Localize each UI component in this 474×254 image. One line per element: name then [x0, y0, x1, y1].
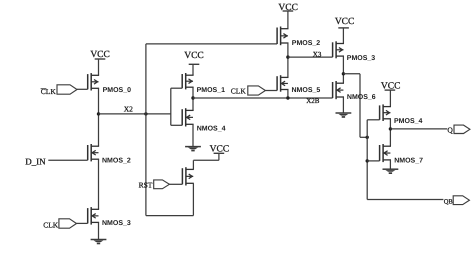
svg-text:NMOS_7: NMOS_7 — [394, 158, 423, 165]
node X2B junction at NMOS_5 — [286, 96, 289, 99]
input port CLK middle — [248, 86, 266, 95]
wire net Q to output port — [390, 128, 447, 130]
transistor PMOS_3 — [333, 41, 344, 58]
ground below NMOS_7 — [383, 169, 399, 174]
transistor NMOS_6 — [333, 81, 344, 99]
wire gate tie PMOS_1/NMOS_4 — [170, 88, 172, 125]
svg-text:Q: Q — [447, 125, 453, 134]
node QB junction at gate tie upper — [366, 136, 369, 139]
svg-text:CLK: CLK — [231, 87, 247, 96]
transistor PMOS_1 — [182, 73, 193, 89]
wire CLK to NMOS_5 gate — [265, 90, 277, 92]
wire RST port to gate — [169, 183, 182, 185]
ground below NMOS_3 — [91, 240, 107, 245]
power VCC supply for PMOS_4 — [381, 81, 401, 91]
wire NMOS_6 source to ground — [342, 97, 344, 113]
power VCC supply for PMOS_3 — [335, 17, 355, 28]
wire VCC to RST transistor drain — [193, 153, 219, 169]
transistor PMOS_2 — [277, 27, 288, 46]
svg-text:X2: X2 — [124, 104, 133, 113]
wire net X2 horizontal — [99, 113, 171, 115]
transistor NMOS_5 — [277, 75, 288, 92]
wire VCC to PMOS_4 source — [389, 90, 391, 107]
wire net X2B horizontal — [193, 97, 333, 99]
wire VCC to PMOS_1 source — [192, 64, 194, 75]
wire D_IN to NMOS_2 gate — [48, 159, 87, 161]
wire NMOS_7 source to ground — [389, 160, 391, 169]
wire VCC to PMOS_2 source — [287, 11, 289, 29]
node QB junction at NMOS_7 gate — [366, 159, 369, 162]
transistor RST pull-up PMOS — [182, 167, 193, 185]
wire net QB to output port — [367, 199, 443, 201]
svg-text:VCC: VCC — [335, 17, 355, 27]
svg-text:QB: QB — [444, 198, 454, 205]
wire CLK to NMOS_3 gate — [77, 222, 88, 224]
input port RST — [154, 180, 170, 189]
wire PMOS_0 drain to NMOS_2 drain (net X2) — [98, 88, 100, 146]
wire NMOS_3 source to ground — [98, 222, 100, 239]
ground below NMOS_4 — [185, 147, 201, 152]
svg-text:D_IN: D_IN — [25, 156, 46, 166]
wire PMOS_4 drain to NMOS_7 drain (net Q) — [389, 119, 391, 146]
transistor NMOS_4 — [182, 108, 193, 126]
wire NMOS_4 gate lead — [171, 124, 182, 126]
wire NMOS_2 source to NMOS_3 drain — [98, 159, 100, 209]
svg-text:NMOS_6: NMOS_6 — [347, 94, 376, 101]
svg-text:NMOS_3: NMOS_3 — [102, 220, 131, 227]
wire PMOS_3 drain to NMOS_6 drain (net QB) — [342, 56, 344, 83]
node X2 junction at mid vertical — [144, 112, 147, 115]
input port CLK lower — [59, 219, 77, 228]
svg-text:X2B: X2B — [306, 97, 320, 105]
wire NMOS_4 source to ground — [192, 124, 194, 146]
wire PMOS_1 gate lead — [171, 87, 182, 89]
input port CLKB — [57, 85, 77, 94]
wire gate tie down to QB output — [366, 137, 368, 199]
output port Q — [454, 125, 470, 133]
power VCC supply for PMOS_0 — [90, 50, 110, 60]
wire NMOS_5 source to net X2B — [287, 90, 289, 99]
wire RST transistor source to net X2 — [146, 183, 194, 215]
svg-text:PMOS_2: PMOS_2 — [292, 40, 321, 47]
wire VCC to PMOS_3 source — [342, 28, 344, 44]
node X2 junction at left rail — [97, 112, 100, 115]
node Q junction — [389, 127, 392, 130]
svg-text:PMOS_1: PMOS_1 — [197, 87, 226, 94]
ground below NMOS_6 — [336, 113, 352, 118]
wire PMOS_0 gate lead — [77, 88, 88, 90]
transistor NMOS_3 — [88, 207, 99, 225]
wire VCC to PMOS_0 source — [98, 59, 100, 75]
power VCC supply for PMOS_1 — [184, 51, 204, 64]
output port QB — [453, 196, 469, 205]
overbar on CLKB C — [41, 88, 47, 90]
wire NMOS_7 gate lead — [367, 160, 379, 162]
wire net X2 vertical riser — [145, 44, 147, 216]
transistor PMOS_0 — [88, 73, 99, 90]
svg-text:PMOS_0: PMOS_0 — [103, 87, 132, 94]
wire net X2 to PMOS_2 gate — [146, 43, 277, 45]
svg-text:CLK: CLK — [43, 220, 59, 229]
svg-text:RST: RST — [139, 181, 153, 190]
svg-text:VCC: VCC — [184, 51, 204, 61]
svg-text:NMOS_2: NMOS_2 — [102, 158, 131, 165]
wire PMOS_1 drain to NMOS_4 drain — [192, 87, 194, 110]
wire PMOS_2 drain to NMOS_5 drain (net X3) — [287, 43, 289, 77]
wire net X3 to PMOS_3 gate — [288, 56, 333, 58]
transistor NMOS_2 — [88, 144, 99, 161]
wire net QB to output stage gates — [343, 74, 367, 138]
power VCC supply for RST transistor — [210, 144, 230, 154]
power VCC supply for PMOS_2 — [278, 3, 298, 13]
svg-text:NMOS_5: NMOS_5 — [292, 87, 321, 94]
transistor PMOS_4 — [380, 104, 391, 121]
svg-text:PMOS_3: PMOS_3 — [347, 55, 376, 62]
svg-text:PMOS_4: PMOS_4 — [394, 118, 423, 125]
node X3 junction — [286, 55, 289, 58]
transistor NMOS_7 — [380, 144, 391, 162]
node QB origin junction — [342, 72, 345, 75]
wire gate tie up to PMOS_4 gate — [367, 120, 379, 138]
svg-text:NMOS_4: NMOS_4 — [197, 125, 226, 132]
node X2B origin (inverter output) — [191, 96, 194, 99]
